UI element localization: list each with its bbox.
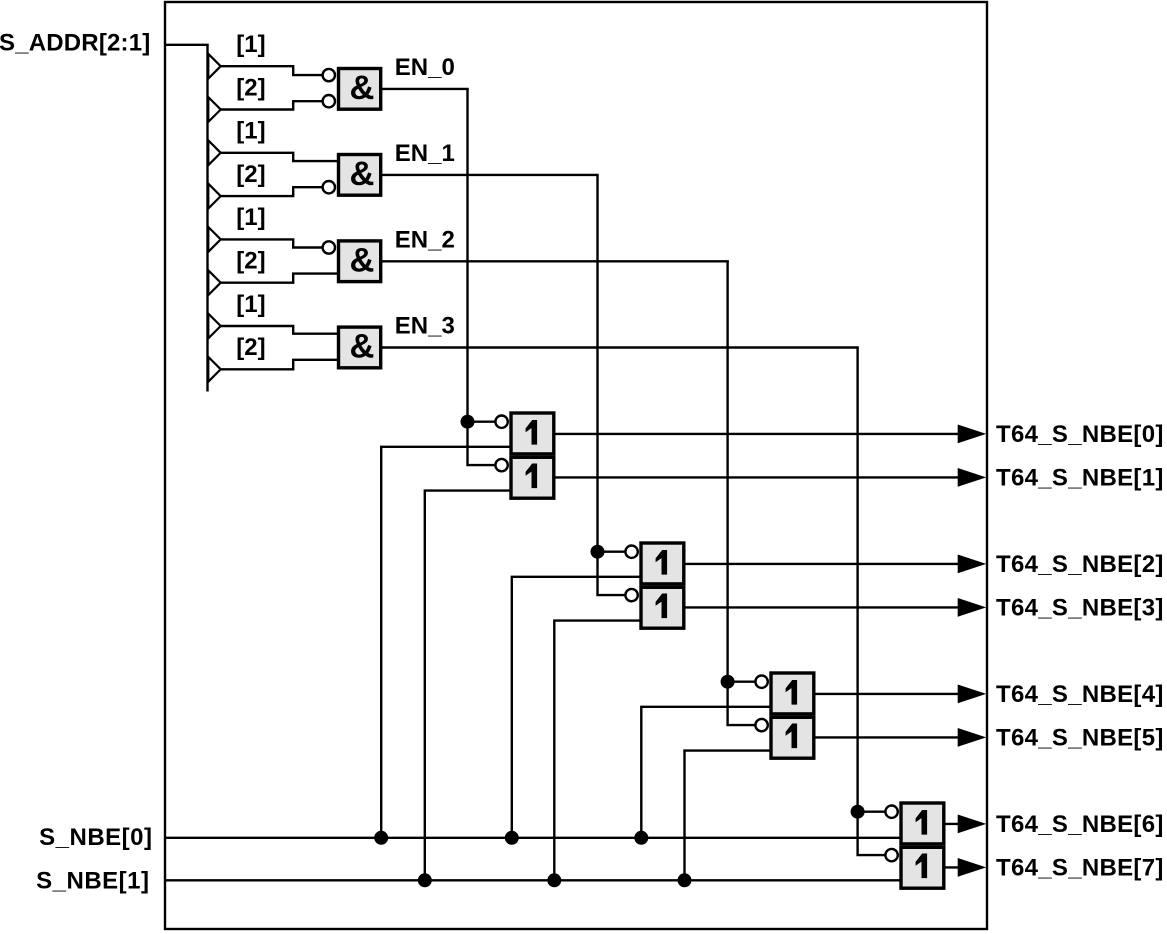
wire S_NBE[0] branch to U9 [641, 707, 771, 838]
and-gate U3 [339, 241, 381, 282]
wire EN_3 to U11 bubble [858, 811, 885, 813]
wire EN_0 to U5 bubble [468, 421, 495, 423]
wire tap 6 to gate U3 [220, 274, 339, 283]
junction S_NBE[1] node 2 [547, 873, 561, 887]
wire T64_S_NBE[0] output [554, 433, 960, 435]
bus ripper tap 2 [208, 97, 220, 122]
svg-text:[1]: [1] [236, 291, 265, 318]
bubble U3 input 1 [323, 241, 335, 253]
wire T64_S_NBE[4] output [814, 693, 960, 695]
bus ripper tap 5 [208, 227, 220, 252]
svg-text:T64_S_NBE[6]: T64_S_NBE[6] [996, 811, 1164, 838]
svg-text:[1]: [1] [236, 31, 265, 58]
wire T64_S_NBE[6] output [944, 823, 960, 825]
junction S_NBE[0] node 1 [374, 831, 388, 845]
wire S_NBE[0] branch to U5 [381, 447, 511, 838]
wire EN_0 output [381, 88, 468, 90]
arrow T64_S_NBE[5] [958, 728, 987, 747]
or-gate U7 [641, 543, 684, 584]
svg-text:T64_S_NBE[4]: T64_S_NBE[4] [996, 681, 1164, 708]
svg-text:&: & [349, 155, 374, 193]
arrow T64_S_NBE[2] [958, 555, 987, 574]
svg-text:&: & [349, 328, 374, 366]
block outline [165, 2, 987, 929]
svg-text:[2]: [2] [236, 161, 265, 188]
wire S_NBE[1] branch to U6 [425, 491, 512, 881]
and-gate U1 [339, 69, 381, 110]
svg-text:EN_0: EN_0 [395, 54, 455, 81]
svg-text:T64_S_NBE[0]: T64_S_NBE[0] [996, 421, 1164, 448]
junction EN_1 node [591, 545, 605, 559]
junction S_NBE[1] node 3 [678, 873, 692, 887]
svg-text:[2]: [2] [236, 334, 265, 361]
wire EN_1 output [381, 174, 598, 176]
bubble U10 input 1 [755, 719, 767, 731]
svg-text:T64_S_NBE[5]: T64_S_NBE[5] [996, 724, 1164, 751]
svg-text:T64_S_NBE[1]: T64_S_NBE[1] [996, 464, 1164, 491]
svg-text:EN_3: EN_3 [395, 313, 455, 340]
arrow T64_S_NBE[1] [958, 468, 987, 487]
junction EN_0 node [461, 415, 475, 429]
svg-text:EN_2: EN_2 [395, 226, 455, 253]
bubble U5 input 1 [495, 416, 507, 428]
arrow T64_S_NBE[6] [958, 815, 987, 834]
or-gate U12 [901, 847, 944, 888]
wire tap 3 to gate U2 [220, 153, 339, 161]
wire tap 4 to gate U2 [220, 187, 322, 196]
wire S_NBE[1] branch to U10 [685, 751, 772, 881]
junction EN_2 node [721, 675, 735, 689]
svg-text:S_NBE[0]: S_NBE[0] [39, 824, 152, 851]
arrow T64_S_NBE[4] [958, 685, 987, 704]
or-gate U9 [771, 673, 814, 714]
or-gate U8 [641, 587, 684, 628]
wire S_NBE[1] branch to U8 [554, 621, 641, 881]
bus S_ADDR vertical [206, 45, 208, 392]
svg-text:S_NBE[1]: S_NBE[1] [36, 867, 149, 894]
bubble U6 input 1 [495, 459, 507, 471]
arrow T64_S_NBE[0] [958, 425, 987, 444]
wire EN_2 to U9 bubble [728, 681, 755, 683]
wire EN_1 drop [598, 175, 625, 595]
or-gate U5 [511, 413, 554, 454]
junction S_NBE[0] node 3 [634, 831, 648, 845]
junction S_NBE[0] node 2 [505, 831, 519, 845]
wire T64_S_NBE[1] output [554, 476, 960, 478]
bubble U1 input 1 [323, 69, 335, 81]
svg-text:[2]: [2] [236, 74, 265, 101]
arrow T64_S_NBE[3] [958, 598, 987, 617]
bubble U8 input 1 [625, 589, 637, 601]
bus ripper tap 1 [208, 54, 220, 79]
wire EN_0 drop [468, 89, 495, 465]
svg-text:T64_S_NBE[3]: T64_S_NBE[3] [996, 594, 1164, 621]
or-gate U6 [511, 457, 554, 498]
wire T64_S_NBE[3] output [684, 606, 960, 608]
bus ripper tap 8 [208, 357, 220, 382]
junction S_NBE[1] node 1 [418, 873, 432, 887]
bubble U2 input 2 [323, 181, 335, 193]
wire EN_2 drop [728, 261, 755, 725]
svg-text:&: & [349, 241, 374, 279]
svg-text:T64_S_NBE[7]: T64_S_NBE[7] [996, 854, 1164, 881]
wire T64_S_NBE[2] output [684, 563, 960, 565]
svg-text:EN_1: EN_1 [395, 140, 455, 167]
svg-text:[1]: [1] [236, 204, 265, 231]
bus ripper tap 4 [208, 184, 220, 209]
or-gate U11 [901, 803, 944, 844]
wire EN_1 to U7 bubble [598, 551, 625, 553]
wire EN_3 drop [858, 348, 885, 856]
svg-text:[1]: [1] [236, 118, 265, 145]
and-gate U4 [339, 327, 381, 368]
wire tap 7 to gate U4 [220, 326, 339, 334]
wire S_NBE[1] [165, 879, 901, 881]
svg-text:S_ADDR[2:1]: S_ADDR[2:1] [0, 29, 151, 56]
svg-text:T64_S_NBE[2]: T64_S_NBE[2] [996, 551, 1164, 578]
wire EN_2 output [381, 260, 728, 262]
wire tap 8 to gate U4 [220, 360, 339, 370]
bus ripper tap 7 [208, 314, 220, 339]
junction EN_3 node [851, 805, 865, 819]
wire T64_S_NBE[7] output [944, 866, 960, 868]
bus ripper tap 3 [208, 140, 220, 165]
or-gate U10 [771, 717, 814, 758]
bubble U7 input 1 [625, 546, 637, 558]
bubble U1 input 2 [323, 95, 335, 107]
wire tap 5 to gate U3 [220, 239, 322, 247]
svg-text:[2]: [2] [236, 248, 265, 275]
bubble U9 input 1 [755, 676, 767, 688]
wire tap 2 to gate U1 [220, 101, 322, 109]
arrow T64_S_NBE[7] [958, 858, 987, 877]
wire S_NBE[0] [165, 837, 901, 839]
wire S_NBE[0] branch to U7 [512, 577, 642, 838]
bubble U11 input 1 [885, 806, 897, 818]
bubble U12 input 1 [885, 849, 897, 861]
bus ripper tap 6 [208, 270, 220, 295]
wire tap 1 to gate U1 [220, 66, 322, 75]
svg-text:&: & [349, 69, 374, 107]
wire T64_S_NBE[5] output [814, 736, 960, 738]
and-gate U2 [339, 155, 381, 196]
wire S_ADDR entry [165, 44, 209, 46]
wire EN_3 output [381, 346, 858, 348]
